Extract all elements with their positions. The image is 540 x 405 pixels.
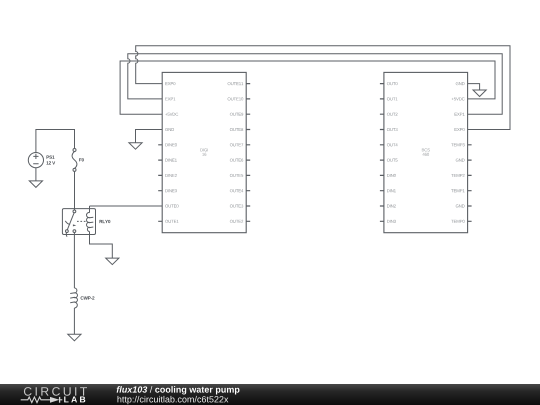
voltage source PS1 — [28, 153, 43, 181]
ground (CWP-2) — [68, 334, 81, 341]
CircuitLab logo — [0, 384, 130, 405]
wire relay coil top to left IC OUTE0 pin — [90, 205, 163, 207]
ground (PS1 negative terminal) — [29, 181, 42, 188]
wire inductor CWP-2 to ground — [73, 308, 75, 334]
label RLY0 — [100, 220, 111, 223]
wire net EXP0 (left IC EXP0 pin to right IC EXP0 pin, outer top run) — [136, 46, 510, 130]
IC U2 pin labels right — [451, 82, 464, 223]
wire right IC GND pin to ground — [468, 84, 480, 90]
IC U1 pin stubs right OUTE11-OUTE2 — [246, 84, 250, 222]
relay RLY0 — [62, 206, 95, 237]
fuse F0 — [72, 149, 77, 172]
footer title and url — [110, 384, 410, 405]
wire net +5VDC (left IC +5VDC pin to right IC +5VDC pin, inner run) — [120, 61, 495, 114]
wire left IC GND pin to ground — [136, 130, 163, 143]
IC U2 part label BCS 460 — [422, 148, 430, 155]
IC U1 pin labels right — [228, 82, 244, 223]
IC U2 unconnected pin stubs right TEMP3-TEMP0 — [468, 145, 472, 222]
ground (left IC GND) — [129, 143, 142, 150]
wire net EXP1 (left IC EXP1 pin to right IC EXP1 pin, middle run) — [128, 54, 502, 114]
wire relay coil bottom to ground — [90, 235, 113, 259]
IC U1 part label DIGI 16 — [200, 148, 208, 155]
ground (relay coil) — [106, 258, 119, 265]
IC U1 DIGI16 expander body — [162, 72, 246, 232]
IC U2 pin labels left — [387, 82, 398, 223]
wire fuse F0 to relay RLY0 common — [74, 171, 76, 210]
IC U2 BCS460 body — [384, 72, 468, 232]
label F0 — [79, 158, 84, 161]
IC U1 unconnected pin stubs left DINE0-DINE3 OUTE1 — [158, 145, 162, 222]
wire relay switch to inductor CWP-2 — [73, 235, 75, 289]
IC U1 pin labels left — [165, 82, 178, 223]
footer bar — [0, 384, 540, 405]
wire PS1 positive terminal to fuse F0 — [36, 130, 75, 153]
ground (right IC GND) — [473, 90, 486, 97]
label CWP-2 — [81, 296, 95, 299]
label PS1 12 V — [46, 155, 55, 164]
inductor CWP-2 (pump coil) — [70, 288, 77, 308]
IC U2 pin stubs left OUT0-DIN3 — [380, 84, 384, 222]
